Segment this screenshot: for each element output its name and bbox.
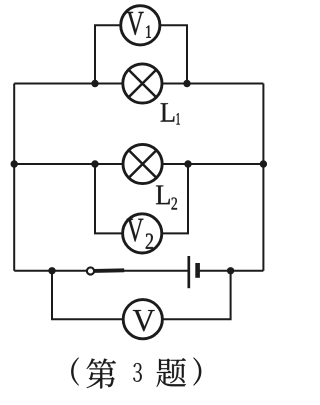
node: junction of V2 left lead on middle line [91,160,98,167]
voltmeter V1 (circle) [121,6,160,45]
wire: middle line (row through L2) from left rail to right rail [14,163,263,165]
node: right rail on middle line [260,160,267,167]
wire: right rail vertical [262,84,264,271]
node: junction of V2 right lead on middle line [184,160,191,167]
voltmeter V2 label "V" [127,219,144,242]
label "L2" for lamp L2 [156,186,177,210]
voltmeter V2 label subscript "2" [146,234,153,249]
node: junction of V1 left lead on top line [91,80,98,87]
wire: top line (row through L1) from left rail to right rail [14,83,263,85]
lamp L1 (circle with cross) [123,64,162,103]
wire: voltmeter V left lead (down from bottom-line node, right to V) [52,271,123,319]
node: junction of voltmeter V right lead on bottom line [227,267,234,274]
node: left rail on middle line [11,160,18,167]
battery cell: short thick negative plate [195,263,200,278]
wire: voltmeter V right lead (from V right, then up to bottom-line node) [162,271,230,319]
lamp L2 (circle with cross) [123,144,162,183]
node: junction of voltmeter V left lead on bottom line [48,267,55,274]
voltmeter V2 (circle) [123,214,162,253]
voltmeter V label "V" [133,310,155,331]
wire: V2 left lead (down from node on middle line, then right to V2) [95,164,123,233]
voltmeter V (circle) [123,300,162,339]
caption "(第 3 题)" [71,358,201,389]
voltmeter V1 label subscript "1" [146,26,151,38]
wire: V1 right lead (from V1 right, then down to node on top line) [160,25,187,83]
battery cell: long positive plate [187,256,190,288]
wire: V2 right lead (from V2 right, then up to node on middle line) [162,164,188,233]
node: junction of V1 right lead on top line [183,80,190,87]
voltmeter V1 label "V" [127,12,144,35]
wire: left rail vertical [13,84,15,271]
wire: bottom line middle segment (switch lever to battery) [123,270,189,272]
wire: bottom line left segment (left rail to switch) [14,270,86,272]
wire: bottom line right segment (battery to right rail) [198,270,264,272]
wire: V1 left lead (up from node on top line, then right to V1) [95,25,121,83]
switch S (pivot circle and closed lever) [87,267,124,274]
label "L1" for lamp L1 [161,103,180,124]
